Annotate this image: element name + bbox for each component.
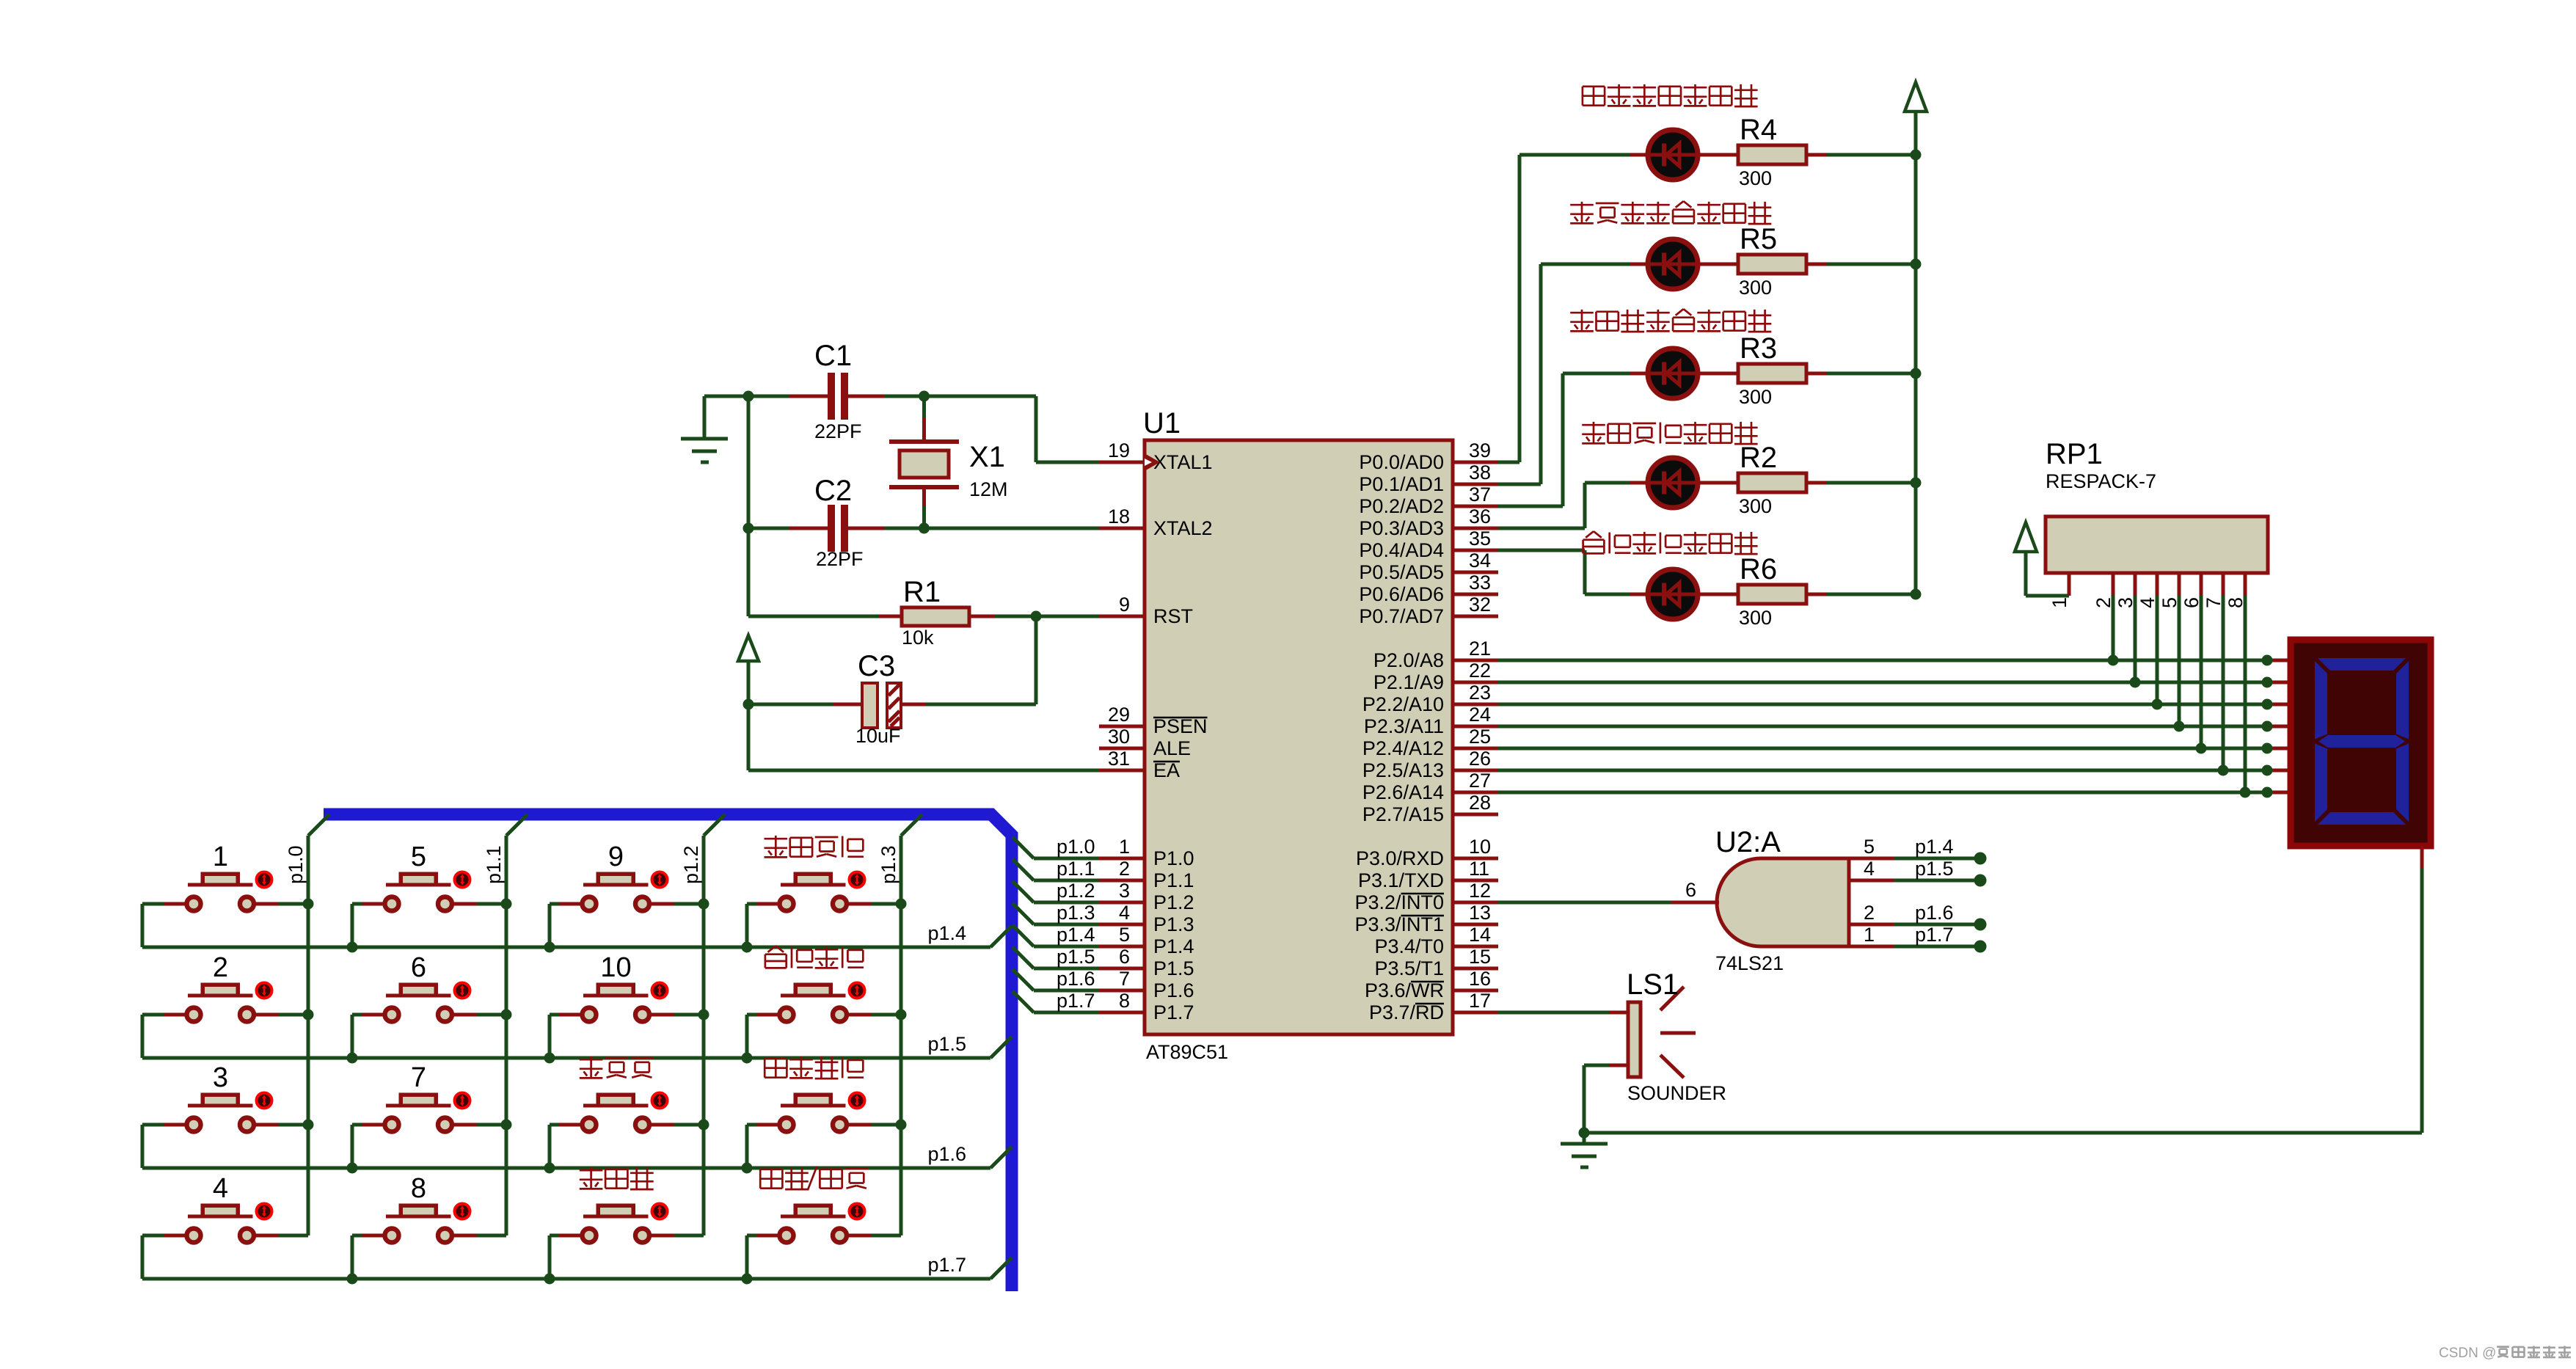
svg-text:7: 7 <box>411 1062 426 1093</box>
node junction row3 col2 <box>347 1163 358 1174</box>
svg-text:RESPACK-7: RESPACK-7 <box>2046 470 2156 492</box>
U1 pin 14 P3.4/T0 stub <box>1453 945 1498 949</box>
svg-text:1: 1 <box>213 842 228 872</box>
wire RST down to C3 <box>1035 616 1038 704</box>
node junction RP1-5 <box>2174 721 2185 732</box>
svg-text:p1.1: p1.1 <box>483 845 505 884</box>
wire button r2c3 right to column <box>652 1013 704 1017</box>
svg-text:U1: U1 <box>1143 407 1181 439</box>
wire button r1c1 right to column <box>256 902 309 906</box>
watermark CSDN <box>2439 1346 2496 1361</box>
node junction col4 row2 <box>896 1010 907 1021</box>
wire button r1c4 right to column <box>849 902 902 906</box>
RP1 pin 1 stub <box>2068 573 2071 596</box>
wire button r1c3 right to column <box>652 902 704 906</box>
svg-text:14: 14 <box>1469 924 1491 946</box>
svg-text:CSDN @: CSDN @ <box>2439 1346 2496 1361</box>
wire button r4c1 left to row line <box>142 1235 185 1279</box>
svg-text:P1.0: P1.0 <box>1153 847 1194 869</box>
svg-text:p1.3: p1.3 <box>877 845 900 884</box>
wire button r2c4 right to column <box>849 1013 902 1017</box>
svg-text:6: 6 <box>2181 597 2203 608</box>
svg-text:LS1: LS1 <box>1627 968 1679 1001</box>
wire U1 P0 pin to LED R3 row <box>1498 373 1648 506</box>
svg-text:32: 32 <box>1469 594 1491 616</box>
label key-0-3 <box>765 836 864 858</box>
wire LED to resistor R6 <box>1698 593 1738 596</box>
wire U1 P0 pin to LED R4 row <box>1498 155 1648 462</box>
U1 pin 23 P2.2/A10 stub <box>1453 703 1498 707</box>
power symbol (LED rail) <box>1905 82 1927 155</box>
svg-text:R4: R4 <box>1740 114 1777 146</box>
svg-text:4: 4 <box>1119 902 1130 924</box>
node junction col1 row3 <box>303 1120 314 1131</box>
node junction display row 4 <box>2262 721 2273 732</box>
U1 pin 9 RST stub <box>1099 615 1145 618</box>
U1 pin name P2.0/A8 <box>1373 649 1444 671</box>
svg-text:p1.0: p1.0 <box>1057 836 1095 858</box>
wire button r3c4 left to row line <box>747 1125 778 1168</box>
svg-text:10k: 10k <box>902 627 934 649</box>
svg-text:P3.2/INT0: P3.2/INT0 <box>1354 891 1444 913</box>
svg-text:PSEN: PSEN <box>1153 715 1208 737</box>
svg-text:P1.1: P1.1 <box>1153 869 1194 891</box>
svg-text:300: 300 <box>1739 167 1772 189</box>
wire button r4c4 right to column <box>849 1234 902 1238</box>
node junction col1 row2 <box>303 1010 314 1021</box>
svg-text:22PF: 22PF <box>814 420 862 442</box>
push button row4-col3 <box>583 1204 668 1243</box>
svg-text:R3: R3 <box>1740 332 1777 365</box>
U1 pin name P3.5/T1 <box>1374 957 1444 979</box>
wire button r2c4 left to row line <box>747 1015 778 1058</box>
svg-text:8: 8 <box>2225 597 2247 608</box>
svg-text:38: 38 <box>1469 461 1491 483</box>
U1 pin name P0.3/AD3 <box>1359 517 1444 539</box>
svg-text:7: 7 <box>1119 968 1130 990</box>
wire button r3c1 right to column <box>256 1123 309 1127</box>
push button row2-col2 <box>385 983 470 1022</box>
svg-text:R5: R5 <box>1740 223 1777 255</box>
node junction display row 3 <box>2262 699 2273 710</box>
U1 pin 34 P0.5/AD5 stub <box>1453 571 1498 574</box>
node junction rail-R5 <box>1911 259 1922 270</box>
push button row2-col1 <box>187 983 272 1022</box>
svg-text:10uF: 10uF <box>855 725 901 747</box>
keypad column line p1.3 <box>901 814 922 1235</box>
U1 pin 15 P3.5/T1 stub <box>1453 967 1498 971</box>
wire U1 P0 pin to LED R5 row <box>1498 264 1648 484</box>
node junction col3 row3 <box>698 1120 709 1131</box>
svg-text:P2.4/A12: P2.4/A12 <box>1362 737 1444 759</box>
node junction RP1-7 <box>2218 765 2229 776</box>
U1 pin name P0.7/AD7 <box>1359 605 1444 627</box>
U1 pin name P3.1/TXD <box>1358 869 1444 891</box>
wire bus to U1 p1.0 <box>1012 837 1099 858</box>
wire resistor R3 to power rail <box>1827 372 1916 376</box>
U1 pin name P1.2 <box>1153 891 1194 913</box>
svg-text:p1.4: p1.4 <box>1057 924 1095 946</box>
svg-text:26: 26 <box>1469 748 1491 770</box>
wire bus to U1 p1.5 <box>1012 947 1099 968</box>
svg-text:5: 5 <box>1119 924 1130 946</box>
U1 pin 4 P1.3 stub <box>1099 923 1145 927</box>
U1 pin name P0.6/AD6 <box>1359 583 1444 605</box>
U1 pin name P1.4 <box>1153 935 1194 957</box>
wire U1 P0 pin to LED R2 row <box>1498 483 1648 528</box>
U1 pin 27 P2.6/A14 stub <box>1453 791 1498 795</box>
svg-text:4: 4 <box>213 1173 228 1204</box>
svg-text:C2: C2 <box>814 475 852 507</box>
svg-text:p1.5: p1.5 <box>927 1033 966 1055</box>
label shunxu-bofang-zhishideng <box>1582 422 1757 444</box>
svg-text:P1.6: P1.6 <box>1153 979 1194 1001</box>
U1 pin name P3.4/T0 <box>1374 935 1444 957</box>
label xuanze-yinyue-zhishideng <box>1583 84 1758 106</box>
7-segment digit 8 <box>2315 658 2409 825</box>
U1 pin 19 XTAL1 stub <box>1099 461 1145 464</box>
push button row3-col3 <box>583 1093 668 1132</box>
U1 pin name P3.2/INT0 <box>1354 891 1444 913</box>
wire R1 to RST <box>1036 615 1099 618</box>
wire P2.4 to display segment row <box>1498 747 2288 751</box>
node junction col2 row3 <box>501 1120 512 1131</box>
wire bus to U1 p1.6 <box>1012 969 1099 990</box>
node junction rail-R3 <box>1911 368 1922 379</box>
U1 pin name P2.6/A14 <box>1362 781 1444 803</box>
svg-text:300: 300 <box>1739 277 1772 299</box>
RP1 pin 7 stub and wire <box>2222 573 2225 770</box>
svg-text:8: 8 <box>411 1173 426 1204</box>
wire button r1c2 left to row line <box>352 904 383 947</box>
wire button r2c1 left to row line <box>142 1015 185 1058</box>
svg-text:P2.0/A8: P2.0/A8 <box>1373 649 1444 671</box>
svg-text:X1: X1 <box>969 441 1005 473</box>
wire resistor R4 to power rail <box>1827 153 1916 157</box>
U1 pin 26 P2.5/A13 stub <box>1453 769 1498 773</box>
U1 pin 8 P1.7 stub <box>1099 1011 1145 1015</box>
U1 pin 25 P2.4/A12 stub <box>1453 747 1498 751</box>
svg-text:P3.4/T0: P3.4/T0 <box>1374 935 1444 957</box>
svg-text:2: 2 <box>1119 858 1130 880</box>
wire button r3c2 right to column <box>454 1123 507 1127</box>
wire button r1c1 left to row line <box>142 904 185 947</box>
wire power to EA <box>748 704 1099 770</box>
node junction display row 7 <box>2262 787 2273 798</box>
node junction RST <box>1031 611 1042 622</box>
push button row4-col2 <box>385 1204 470 1243</box>
label key-1-3 <box>765 946 864 968</box>
microcontroller U1 AT89C51 body <box>1145 440 1453 1034</box>
svg-text:30: 30 <box>1108 726 1130 748</box>
node junction display row 2 <box>2262 677 2273 688</box>
svg-text:p1.0: p1.0 <box>285 845 307 884</box>
svg-text:5: 5 <box>411 842 426 872</box>
power symbol (RP1) <box>2015 522 2069 596</box>
push button row1-col3 <box>583 872 668 911</box>
wire button r4c4 left to row line <box>747 1235 778 1279</box>
U2 input pin 5 wire <box>1849 857 1980 861</box>
svg-text:R2: R2 <box>1740 442 1777 474</box>
svg-text:300: 300 <box>1739 607 1772 629</box>
svg-text:p1.1: p1.1 <box>1057 858 1095 880</box>
U1 pin 29 PSEN stub <box>1099 725 1145 729</box>
svg-text:P2.7/A15: P2.7/A15 <box>1362 803 1444 825</box>
wire button r2c2 left to row line <box>352 1015 383 1058</box>
wire button r3c2 left to row line <box>352 1125 383 1168</box>
svg-text:p1.6: p1.6 <box>1057 968 1095 990</box>
svg-text:P1.4: P1.4 <box>1153 935 1194 957</box>
svg-text:P0.7/AD7: P0.7/AD7 <box>1359 605 1444 627</box>
resistor pack RP1 body <box>2046 516 2268 573</box>
U1 pin 11 P3.1/TXD stub <box>1453 879 1498 883</box>
wire P2.3 to display segment row <box>1498 725 2288 729</box>
svg-text:8: 8 <box>1119 990 1130 1012</box>
U1 pin name PSEN <box>1153 715 1208 737</box>
node junction RP1-8 <box>2240 787 2251 798</box>
crystal X1 <box>889 396 959 528</box>
keypad column line p1.2 <box>704 814 725 1235</box>
display common pin wire to ground net <box>1584 846 2422 1133</box>
node junction row4 col3 <box>544 1274 555 1285</box>
node wire-end p1.6 <box>1974 919 1987 931</box>
wire U1 P0 pin to LED R6 row <box>1498 550 1648 594</box>
wire U1 P3.7 to LS1 <box>1498 1011 1628 1015</box>
push button row1-col1 <box>187 872 272 911</box>
U1 pin 17 P3.7/RD stub <box>1453 1011 1498 1015</box>
capacitor C2 <box>748 505 924 552</box>
svg-text:21: 21 <box>1469 638 1491 660</box>
resistor R6 <box>1738 585 1827 604</box>
node junction RP1-6 <box>2196 743 2207 754</box>
U1 pin 1 P1.0 stub <box>1099 857 1145 861</box>
wire button r1c4 left to row line <box>747 904 778 947</box>
U1 pin 13 P3.3/INT1 stub <box>1453 923 1498 927</box>
wire LED to resistor R3 <box>1698 372 1738 376</box>
wire bus to U1 p1.1 <box>1012 859 1099 880</box>
svg-text:37: 37 <box>1469 483 1491 505</box>
wire resistor R5 to power rail <box>1827 263 1916 266</box>
svg-text:3: 3 <box>213 1062 228 1093</box>
wire button r4c2 right to column <box>454 1234 507 1238</box>
node junction rail-R4 <box>1911 150 1922 161</box>
svg-text:P3.1/TXD: P3.1/TXD <box>1358 869 1444 891</box>
keypad row line p1.7 <box>142 1257 1012 1279</box>
push button row3-col1 <box>187 1093 272 1132</box>
svg-text:AT89C51: AT89C51 <box>1146 1041 1228 1063</box>
node junction col3 row1 <box>698 899 709 910</box>
node junction RP1-2 <box>2108 655 2119 666</box>
wire button r1c2 right to column <box>454 902 507 906</box>
node junction C2-left <box>743 523 754 534</box>
push button row3-col2 <box>385 1093 470 1132</box>
U1 pin name P3.6/WR <box>1365 979 1444 1001</box>
node junction C2-right <box>919 523 930 534</box>
svg-text:P0.2/AD2: P0.2/AD2 <box>1359 495 1444 517</box>
U1 pin 39 P0.0/AD0 stub <box>1453 461 1498 464</box>
LED D-R6 <box>1648 569 1698 619</box>
svg-text:p1.5: p1.5 <box>1057 946 1095 968</box>
wire LED to resistor R5 <box>1698 263 1738 266</box>
label key-3-3 <box>760 1167 868 1190</box>
resistor R1 <box>748 607 1036 626</box>
label key-2-2 <box>580 1056 654 1078</box>
wire button r3c1 left to row line <box>142 1125 185 1168</box>
U1 pin name XTAL1 <box>1153 451 1213 473</box>
U1 pin name EA <box>1153 759 1180 781</box>
svg-text:EA: EA <box>1153 759 1180 781</box>
svg-text:5: 5 <box>2159 597 2181 608</box>
svg-text:p1.6: p1.6 <box>927 1143 966 1165</box>
U1 pin 7 P1.6 stub <box>1099 989 1145 993</box>
svg-text:28: 28 <box>1469 792 1491 814</box>
label dianziyin-moshi-zhishideng <box>1570 201 1771 224</box>
push button row2-col3 <box>583 983 668 1022</box>
node junction C1-left <box>743 391 754 402</box>
U1 pin name P2.3/A11 <box>1364 715 1444 737</box>
bus p1.0-p1.7 (blue) <box>324 814 1012 1291</box>
U1 pin 5 P1.4 stub <box>1099 945 1145 949</box>
wire bus to U1 p1.4 <box>1012 925 1099 946</box>
U1 pin 24 P2.3/A11 stub <box>1453 725 1498 729</box>
svg-text:p1.2: p1.2 <box>680 845 702 884</box>
svg-text:ALE: ALE <box>1153 737 1191 759</box>
U1 pin 12 P3.2/INT0 stub <box>1453 901 1498 905</box>
svg-text:11: 11 <box>1469 858 1489 880</box>
wire U2 output pin 6 to U1 P3.2 <box>1498 901 1719 905</box>
LED D-R5 <box>1648 239 1698 289</box>
wire bus to U1 p1.3 <box>1012 903 1099 924</box>
node junction display row 6 <box>2262 765 2273 776</box>
svg-text:P3.5/T1: P3.5/T1 <box>1374 957 1444 979</box>
resistor R2 <box>1738 473 1827 492</box>
U1 pin name P2.7/A15 <box>1362 803 1444 825</box>
label key-2-3 <box>765 1056 864 1078</box>
svg-text:P2.3/A11: P2.3/A11 <box>1364 715 1444 737</box>
svg-text:13: 13 <box>1469 902 1491 924</box>
wire C1 to XTAL1 <box>924 396 1100 462</box>
U2 input pin 2 wire <box>1849 923 1980 927</box>
svg-text:2: 2 <box>2092 597 2115 608</box>
svg-text:5: 5 <box>1864 836 1875 858</box>
node wire-end p1.7 <box>1974 941 1987 953</box>
keypad row line p1.4 <box>142 926 1012 947</box>
svg-text:P2.5/A13: P2.5/A13 <box>1362 759 1444 781</box>
svg-text:P3.7/RD: P3.7/RD <box>1369 1001 1444 1023</box>
U1 pin 6 P1.5 stub <box>1099 967 1145 971</box>
svg-text:300: 300 <box>1739 386 1772 408</box>
svg-text:12M: 12M <box>969 478 1008 500</box>
svg-text:34: 34 <box>1469 550 1491 572</box>
wire bus to U1 p1.7 <box>1012 991 1099 1012</box>
node wire-end p1.4 <box>1974 853 1987 865</box>
node junction col2 row1 <box>501 899 512 910</box>
node junction col1 row1 <box>303 899 314 910</box>
7-segment display body <box>2291 640 2431 846</box>
U1 pin name P1.6 <box>1153 979 1194 1001</box>
svg-text:p1.3: p1.3 <box>1057 902 1095 924</box>
svg-text:p1.5: p1.5 <box>1915 858 1954 880</box>
svg-text:SOUNDER: SOUNDER <box>1627 1082 1726 1104</box>
LS1 bottom terminal wire <box>1584 1065 1628 1133</box>
U1 pin 3 P1.2 stub <box>1099 901 1145 905</box>
U1 pin 21 P2.0/A8 stub <box>1453 659 1498 662</box>
svg-text:p1.7: p1.7 <box>1915 924 1954 946</box>
U1 pin name P0.4/AD4 <box>1359 539 1444 561</box>
svg-text:P1.7: P1.7 <box>1153 1001 1194 1023</box>
svg-text:29: 29 <box>1108 704 1130 726</box>
wire button r4c2 left to row line <box>352 1235 383 1279</box>
push button row2-col4 <box>780 983 865 1022</box>
svg-text:36: 36 <box>1469 505 1491 527</box>
push button row4-col4 <box>780 1204 865 1243</box>
wire button r1c3 left to row line <box>550 904 580 947</box>
U1 pin name P1.5 <box>1153 957 1194 979</box>
ground symbol (top-left) <box>681 396 728 462</box>
svg-text:P0.0/AD0: P0.0/AD0 <box>1359 451 1444 473</box>
svg-text:P2.1/A9: P2.1/A9 <box>1373 671 1444 693</box>
svg-text:6: 6 <box>1119 946 1130 968</box>
svg-text:27: 27 <box>1469 770 1491 792</box>
svg-text:4: 4 <box>1864 858 1875 880</box>
svg-text:1: 1 <box>1864 924 1875 946</box>
svg-text:15: 15 <box>1469 946 1491 968</box>
node junction row4 col4 <box>742 1274 753 1285</box>
LED D-R2 <box>1648 458 1698 508</box>
wire bus to U1 p1.2 <box>1012 881 1099 902</box>
svg-text:P1.3: P1.3 <box>1153 913 1194 935</box>
U1 pin name P1.3 <box>1153 913 1194 935</box>
svg-text:2: 2 <box>213 952 228 983</box>
svg-text:P3.6/WR: P3.6/WR <box>1365 979 1444 1001</box>
svg-text:P0.6/AD6: P0.6/AD6 <box>1359 583 1444 605</box>
U1 pin 37 P0.2/AD2 stub <box>1453 505 1498 508</box>
RP1 pin 6 stub and wire <box>2200 573 2203 748</box>
U1 pin 22 P2.1/A9 stub <box>1453 681 1498 684</box>
svg-text:P0.1/AD1: P0.1/AD1 <box>1359 473 1444 495</box>
U1 pin 10 P3.0/RXD stub <box>1453 857 1498 861</box>
push button row1-col2 <box>385 872 470 911</box>
resistor R3 <box>1738 364 1827 383</box>
wire P2.2 to display segment row <box>1498 703 2288 707</box>
svg-text:9: 9 <box>1119 594 1130 616</box>
RP1 pin 3 stub and wire <box>2134 573 2137 682</box>
node junction rail-R2 <box>1911 478 1922 489</box>
U1 pin name P3.7/RD <box>1369 1001 1444 1023</box>
svg-text:U2:A: U2:A <box>1715 826 1781 858</box>
node junction display row 1 <box>2262 655 2273 666</box>
U2 input pin 1 wire <box>1849 945 1980 949</box>
svg-text:p1.7: p1.7 <box>927 1254 966 1276</box>
svg-text:1: 1 <box>1119 836 1130 858</box>
svg-text:P3.3/INT1: P3.3/INT1 <box>1354 913 1444 935</box>
U1 pin name P2.2/A10 <box>1362 693 1444 715</box>
wire button r2c1 right to column <box>256 1013 309 1017</box>
svg-text:19: 19 <box>1108 439 1130 461</box>
wire P2.0 to display segment row <box>1498 659 2288 662</box>
resistor R4 <box>1738 145 1827 164</box>
node junction row2 col2 <box>347 1053 358 1064</box>
svg-text:4: 4 <box>2137 597 2159 608</box>
node junction row2 col3 <box>544 1053 555 1064</box>
keypad column line p1.1 <box>506 814 528 1235</box>
push button row3-col4 <box>780 1093 865 1132</box>
U1 pin name P0.2/AD2 <box>1359 495 1444 517</box>
RP1 pin 4 stub and wire <box>2156 573 2159 704</box>
svg-text:P0.4/AD4: P0.4/AD4 <box>1359 539 1444 561</box>
node junction row3 col4 <box>742 1163 753 1174</box>
U1 pin name P2.1/A9 <box>1373 671 1444 693</box>
